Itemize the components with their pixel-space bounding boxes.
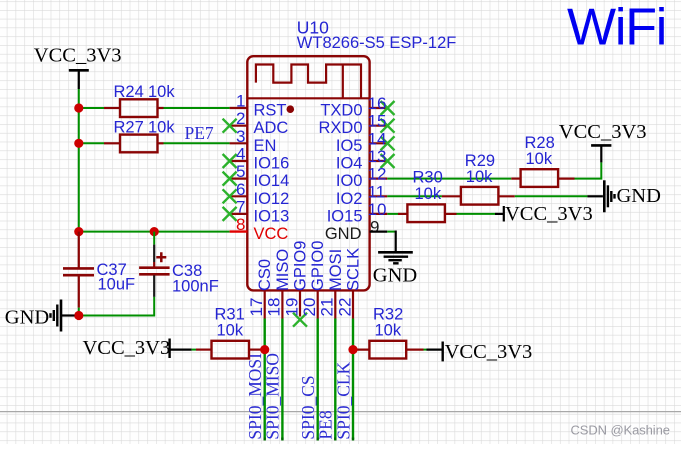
bottom pin names (rotated) — [256, 241, 362, 291]
svg-text:IO12: IO12 — [254, 190, 290, 208]
wire: pin11 IO2 row — [387, 195, 442, 197]
wire: pin17 SPI0_MOSI — [264, 319, 266, 440]
pin 9 stub — [370, 231, 388, 233]
svg-text:WT8266-S5 ESP-12F: WT8266-S5 ESP-12F — [297, 34, 457, 52]
svg-text:VCC: VCC — [254, 225, 289, 243]
pin 10 stub — [370, 213, 388, 215]
svg-text:10: 10 — [368, 200, 387, 219]
svg-text:8: 8 — [236, 215, 245, 234]
wire: R24 to pin1 — [164, 107, 230, 109]
junction dot — [74, 227, 83, 236]
junction dot — [74, 139, 83, 148]
wire: VCC rail vertical — [78, 89, 80, 232]
pin 12 stub — [370, 178, 388, 180]
no-connect X mark pin 19 — [293, 313, 307, 327]
svg-text:4: 4 — [236, 145, 245, 164]
ground GND (right) — [604, 180, 661, 212]
pin 5 stub — [230, 178, 248, 180]
svg-text:RST: RST — [254, 102, 287, 120]
svg-text:1: 1 — [236, 92, 245, 111]
pin 7 stub — [230, 213, 248, 215]
wire: pin10 IO15 row — [387, 213, 398, 215]
wire: pin8 VCC row — [79, 231, 230, 233]
svg-text:IO13: IO13 — [254, 207, 290, 225]
svg-text:MISO: MISO — [274, 249, 292, 291]
pin 16 stub — [370, 107, 388, 109]
svg-text:IO16: IO16 — [254, 155, 290, 173]
svg-text:GND: GND — [617, 185, 661, 207]
resistor R29 — [442, 152, 515, 205]
svg-text:10k: 10k — [375, 321, 402, 339]
capacitor C37 — [63, 232, 135, 308]
svg-text:MOSI: MOSI — [327, 249, 345, 291]
resistor R32 — [353, 306, 424, 359]
svg-text:17: 17 — [247, 298, 266, 317]
wire: pin20 SPI0_CS — [317, 319, 319, 440]
svg-text:VCC_3V3: VCC_3V3 — [445, 341, 533, 363]
junction dot R31/pin17 — [260, 345, 269, 354]
wire: R32 to net label — [424, 349, 427, 351]
wire: R28 to VCC — [575, 162, 602, 178]
resistor R27 — [104, 119, 175, 153]
IC U10 body — [247, 56, 369, 290]
wire: R27 to pin3, net PE7 — [164, 123, 230, 143]
pin 19 stub — [299, 290, 301, 316]
svg-text:13: 13 — [368, 147, 387, 166]
right pin names — [318, 102, 362, 244]
resistor R30 — [398, 168, 457, 222]
left pins group: stubs — [230, 108, 248, 214]
resistor R24 — [104, 83, 175, 117]
svg-text:R24: R24 — [114, 83, 144, 101]
wire: R29 to GND — [515, 195, 588, 197]
svg-text:IO14: IO14 — [254, 172, 290, 190]
svg-text:CSDN @Kashine: CSDN @Kashine — [571, 422, 670, 437]
net label VCC_3V3 (pin10 row) — [504, 203, 593, 225]
svg-text:EN: EN — [254, 137, 277, 155]
pin 3 stub — [230, 142, 248, 144]
junction dot — [74, 311, 83, 320]
svg-text:VCC_3V3: VCC_3V3 — [559, 121, 647, 143]
pin 11 stub — [370, 195, 388, 197]
svg-text:14: 14 — [368, 129, 387, 148]
sheet boundary line — [0, 411, 681, 413]
svg-text:15: 15 — [368, 112, 387, 131]
svg-text:CS0: CS0 — [256, 259, 274, 291]
junction dot — [150, 227, 159, 236]
svg-text:10k: 10k — [217, 321, 244, 339]
svg-text:VCC_3V3: VCC_3V3 — [83, 337, 171, 359]
wire: R30 to net label — [457, 213, 496, 215]
svg-text:10uF: 10uF — [98, 276, 136, 294]
wire: GND elbow — [395, 232, 396, 252]
svg-text:IO2: IO2 — [336, 190, 363, 208]
svg-text:11: 11 — [368, 183, 386, 202]
svg-text:TXD0: TXD0 — [320, 102, 362, 120]
wire: pin22 SPI0_CLK — [352, 319, 354, 440]
wire: C38 bottom to rail — [79, 297, 154, 316]
svg-text:100nF: 100nF — [172, 278, 219, 296]
svg-text:7: 7 — [236, 197, 245, 216]
pin 20 stub — [317, 290, 319, 318]
bottom pin numbers 17-22 (rotated) — [247, 298, 354, 317]
svg-text:5: 5 — [236, 162, 245, 181]
svg-text:GPIO0: GPIO0 — [309, 241, 327, 291]
junction dot — [74, 103, 83, 112]
wire: pin1 row left — [79, 107, 104, 109]
wire: pin12 IO0 row — [387, 178, 511, 180]
svg-text:RXD0: RXD0 — [318, 119, 362, 137]
svg-text:10k: 10k — [466, 168, 493, 186]
power symbol VCC_3V3 (upper right) — [559, 121, 647, 162]
pin 21 stub — [334, 290, 336, 318]
svg-text:18: 18 — [265, 298, 284, 317]
pin 4 stub — [230, 160, 248, 162]
ground GND (left) — [5, 300, 75, 332]
svg-text:SCLK: SCLK — [345, 248, 363, 291]
svg-text:10k: 10k — [415, 185, 442, 203]
svg-text:GND: GND — [325, 225, 362, 243]
svg-text:10k: 10k — [526, 150, 553, 168]
svg-text:IO0: IO0 — [336, 172, 363, 190]
right pin numbers — [368, 94, 387, 237]
svg-text:R30: R30 — [413, 168, 443, 186]
svg-text:20: 20 — [300, 298, 319, 317]
left pin numbers — [236, 92, 245, 235]
svg-text:GPIO9: GPIO9 — [292, 241, 310, 291]
svg-text:2: 2 — [236, 109, 245, 128]
svg-text:12: 12 — [368, 165, 387, 184]
svg-text:10k: 10k — [148, 119, 175, 137]
svg-text:ADC: ADC — [254, 119, 289, 137]
svg-text:6: 6 — [236, 180, 245, 199]
svg-text:PE7: PE7 — [185, 123, 214, 143]
pin 1 stub — [230, 107, 248, 109]
svg-text:19: 19 — [282, 298, 301, 317]
svg-text:21: 21 — [318, 298, 337, 317]
antenna meander — [256, 65, 361, 99]
svg-text:16: 16 — [368, 94, 387, 113]
no-connect X marks right pins 16,15,14,13 — [381, 101, 395, 168]
pin 17 stub — [264, 290, 266, 318]
svg-text:22: 22 — [335, 298, 354, 317]
wire: pin3 row left — [79, 142, 104, 144]
capacitor C38 — [139, 232, 219, 297]
wire: C37 bottom — [78, 308, 80, 316]
svg-text:VCC_3V3: VCC_3V3 — [505, 203, 593, 225]
wire: pin18 SPI0_MISO — [281, 319, 283, 440]
svg-text:IO4: IO4 — [336, 155, 363, 173]
wire: to R31 — [192, 349, 196, 351]
power symbol VCC_3V3 (top left) — [34, 45, 122, 89]
svg-text:R27: R27 — [114, 119, 144, 137]
junction dot R32/pin22 — [348, 345, 357, 354]
pin 22 stub — [352, 290, 354, 318]
svg-text:IO5: IO5 — [336, 137, 363, 155]
pin 13 stub — [370, 160, 388, 162]
pin 15 stub — [370, 125, 388, 127]
no-connect X marks left pins 2,4,5,6,7 — [223, 119, 237, 221]
pin 18 stub — [281, 290, 283, 318]
pin 14 stub — [370, 142, 388, 144]
svg-text:GND: GND — [5, 307, 49, 329]
wire: pin21 PE8 — [334, 319, 336, 440]
pin 8 stub (VCC, red) — [230, 230, 248, 232]
RST active dot — [287, 105, 295, 113]
bottom pins group: stubs — [265, 290, 353, 318]
svg-text:SPI0_CLK: SPI0_CLK — [333, 361, 353, 439]
resistor R31 — [196, 306, 265, 359]
resistor R28 — [511, 134, 574, 187]
svg-text:3: 3 — [236, 127, 245, 146]
wire end markers — [265, 438, 353, 441]
left pin names — [254, 102, 290, 244]
svg-text:9: 9 — [370, 218, 379, 237]
svg-text:IO15: IO15 — [327, 207, 363, 225]
svg-text:VCC_3V3: VCC_3V3 — [34, 45, 122, 67]
svg-text:10k: 10k — [148, 83, 175, 101]
right pins group: stubs — [370, 108, 388, 214]
ground GND (pin9 earth) — [373, 252, 417, 286]
pin 2 stub — [230, 125, 248, 127]
svg-text:WiFi: WiFi — [567, 0, 666, 57]
svg-text:GND: GND — [373, 265, 417, 287]
pin 6 stub — [230, 195, 248, 197]
net label VCC_3V3 (R31 left) — [83, 337, 192, 359]
svg-text:SPI0_MISO: SPI0_MISO — [263, 353, 283, 440]
wire: pin9 GND row — [387, 231, 395, 233]
net label VCC_3V3 (R32 right) — [443, 341, 533, 363]
